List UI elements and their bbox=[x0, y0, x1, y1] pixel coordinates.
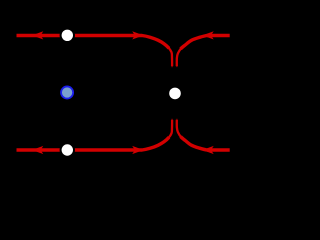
arrow left-pointing on top-left line bbox=[32, 31, 43, 39]
arrow left-pointing on bottom-right line bbox=[202, 146, 213, 154]
wire top-right field line shoulder bbox=[181, 36, 230, 50]
arrow right-pointing on bottom-left line bbox=[132, 146, 143, 154]
node white dot bottom-left bbox=[60, 142, 75, 157]
arrow left-pointing on top-right line bbox=[202, 31, 213, 39]
wire top-left field line tail bbox=[169, 48, 173, 66]
node white dot top-left bbox=[60, 28, 75, 43]
arrow left-pointing on bottom-left line bbox=[32, 146, 43, 154]
wire top-left strand tip fade bbox=[171, 66, 173, 67]
wire bottom-right field line shoulder bbox=[181, 137, 230, 151]
node white dot right bbox=[169, 88, 181, 100]
wire bottom-right field line tail bbox=[177, 120, 181, 137]
wire bottom-right strand tip fade bbox=[176, 119, 178, 120]
arrow right-pointing on top-left line bbox=[132, 31, 143, 39]
wire bottom-left strand tip fade bbox=[171, 119, 173, 120]
node blue charge dot bbox=[61, 86, 73, 98]
wire top-right strand tip fade bbox=[176, 66, 178, 67]
wire top-left field line shoulder bbox=[17, 36, 170, 49]
wire bottom-left field line tail bbox=[169, 120, 173, 138]
wire bottom-left field line shoulder bbox=[17, 137, 170, 150]
wire top-right field line tail bbox=[177, 49, 181, 67]
